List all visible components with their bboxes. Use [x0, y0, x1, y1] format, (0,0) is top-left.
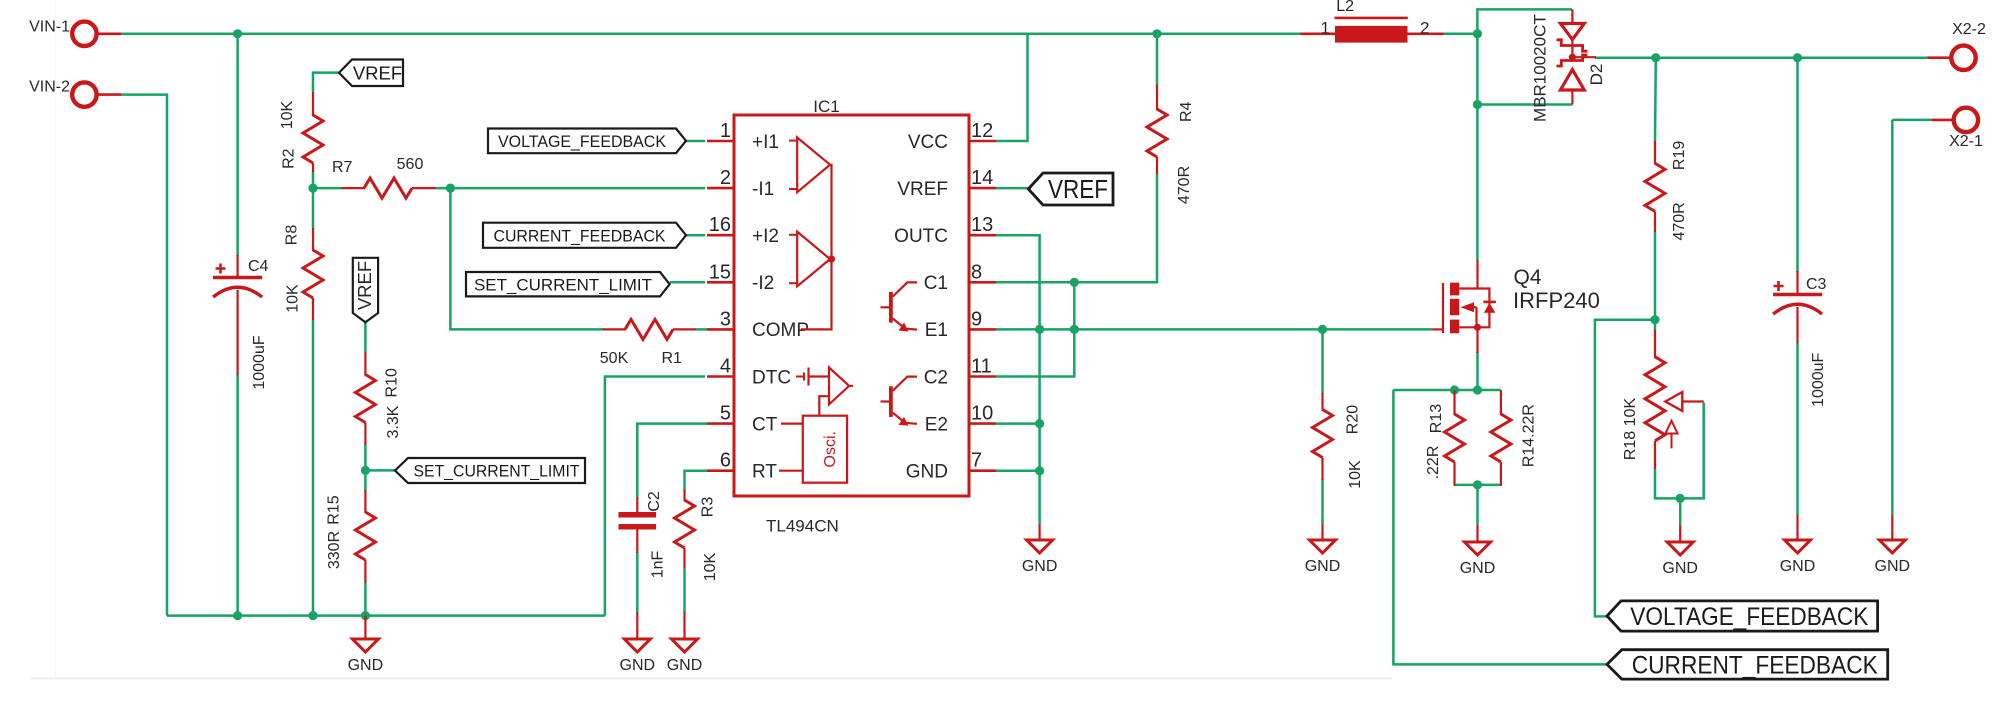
svg-text:IRFP240: IRFP240 [1513, 288, 1600, 313]
wire R4 top [1156, 34, 1159, 86]
net flag CURRENT_FEEDBACK bottom [1607, 650, 1888, 680]
svg-text:Q4: Q4 [1514, 266, 1542, 289]
wire source sense row [1393, 389, 1501, 392]
wire R4 bottom to C1 node [1074, 172, 1157, 282]
svg-text:L2: L2 [1336, 0, 1354, 15]
svg-text:+I2: +I2 [752, 226, 779, 247]
wire R13 R14 bottom row [1455, 484, 1501, 487]
wire R18 node to VOLTAGE_FEEDBACK [1595, 320, 1655, 617]
resistor R2 [279, 92, 323, 172]
svg-text:CT: CT [752, 414, 778, 435]
svg-text:DTC: DTC [752, 367, 791, 388]
net flag SET_CURRENT_LIMIT at pin15 [466, 272, 670, 296]
node A diode junction [1473, 100, 1482, 109]
svg-text:R14.22R: R14.22R [1520, 404, 1537, 467]
svg-text:R10: R10 [383, 368, 400, 397]
svg-text:1: 1 [720, 120, 731, 142]
comparator DTC (internal) [796, 367, 853, 415]
resistor R15 [325, 490, 375, 583]
svg-text:Osci.: Osci. [822, 431, 839, 467]
resistor R20 [1313, 393, 1364, 489]
ground GND at X2-1 [1875, 515, 1911, 575]
inductor L2 [1301, 0, 1444, 43]
wire R18 bottom loop [1655, 403, 1704, 499]
wire R15 bottom [364, 582, 367, 616]
wire R1 to IC pin 3 [695, 328, 708, 331]
svg-text:10K: 10K [702, 552, 719, 581]
svg-text:1000uF: 1000uF [1810, 352, 1827, 406]
node R13 top junction [1450, 385, 1459, 394]
wire DTC pin4 to ground rail [605, 377, 705, 616]
resistor R13 [1425, 390, 1465, 486]
wire R2-R8 node [312, 171, 315, 229]
node shunt GND junction [1473, 480, 1482, 489]
svg-text:1000uF: 1000uF [251, 335, 268, 389]
resistor R14 [1491, 390, 1537, 486]
svg-text:R19: R19 [1671, 141, 1688, 170]
svg-text:GND: GND [1022, 558, 1058, 575]
wire CURRENT_FEEDBACK loop [1393, 390, 1607, 664]
ground GND at shunt [1460, 525, 1496, 577]
svg-text:50K: 50K [600, 350, 629, 367]
svg-text:SET_CURRENT_LIMIT: SET_CURRENT_LIMIT [414, 462, 580, 481]
connector VIN-2 [29, 79, 121, 107]
svg-text:10: 10 [971, 403, 993, 425]
svg-text:6: 6 [720, 450, 731, 472]
wire junction to SET_CURRENT_LIMIT flag [365, 469, 395, 472]
svg-text:R1: R1 [661, 350, 682, 367]
ground GND at IC pin7 [1022, 524, 1058, 575]
svg-text:R20: R20 [1344, 405, 1361, 434]
svg-text:GND: GND [620, 657, 656, 674]
svg-text:10K: 10K [284, 284, 301, 313]
svg-text:10K: 10K [279, 100, 296, 129]
svg-text:C3: C3 [1806, 276, 1827, 293]
wire R19 bottom [1654, 231, 1657, 331]
svg-text:TL494CN: TL494CN [766, 517, 839, 536]
connector X2-2 [1927, 21, 1986, 70]
net flag VOLTAGE_FEEDBACK at pin1 [488, 129, 686, 154]
svg-text:R15: R15 [325, 495, 342, 524]
svg-text:470R: 470R [1671, 202, 1688, 240]
potentiometer R18 [1622, 330, 1704, 469]
svg-text:GND: GND [1662, 560, 1698, 577]
svg-text:R2: R2 [281, 148, 298, 169]
svg-text:R7: R7 [332, 159, 353, 176]
svg-text:12: 12 [971, 120, 993, 142]
node R10 R15 junction [361, 466, 370, 475]
resistor R8 [283, 225, 323, 320]
node C4 bottom rail junction [233, 611, 242, 620]
svg-text:R3: R3 [699, 497, 716, 518]
node C4 rail junction [233, 29, 242, 38]
wire D2 cathode out [1595, 56, 1927, 59]
svg-text:R18 10K: R18 10K [1622, 398, 1639, 461]
wire C2 bottom [636, 552, 639, 613]
svg-text:470R: 470R [1176, 166, 1193, 204]
svg-text:5: 5 [720, 403, 731, 425]
diode D2 MBR10020CT [1531, 9, 1606, 122]
wire C4 bottom [236, 374, 239, 616]
wire Q4 source down [1476, 352, 1479, 390]
wire GND pin 7 [996, 469, 1040, 472]
svg-text:GND: GND [1305, 558, 1341, 575]
capacitor C2 [619, 491, 667, 578]
wire E2 pin 10 [996, 422, 1040, 425]
svg-text:8: 8 [971, 261, 982, 283]
svg-text:SET_CURRENT_LIMIT: SET_CURRENT_LIMIT [474, 275, 652, 294]
op-amp IC1 TL494CN body and pins [707, 97, 996, 536]
wire R3 bottom [683, 568, 686, 613]
wire node A2 to IC pin 2 [450, 187, 705, 190]
svg-text:GND: GND [1875, 558, 1911, 575]
transistor Q-int1 C1/E1 (internal) [881, 282, 918, 331]
svg-text:E1: E1 [925, 320, 948, 341]
svg-text:3.3K: 3.3K [385, 405, 402, 438]
svg-text:VREF: VREF [1048, 176, 1108, 204]
svg-text:14: 14 [971, 167, 993, 189]
svg-text:OUTC: OUTC [894, 226, 948, 247]
svg-text:4: 4 [720, 356, 731, 378]
node R19 R18 junction [1650, 315, 1659, 324]
wire R20 top [1321, 329, 1324, 394]
connector X2-1 [1932, 108, 1983, 150]
frame line [30, 678, 1392, 680]
resistor R7 [332, 156, 436, 198]
svg-text:330R: 330R [326, 531, 343, 569]
wire C2 pin 11 up to E1 row [996, 282, 1074, 376]
resistor R3 [675, 490, 719, 581]
capacitor C3 [1773, 271, 1827, 407]
svg-text:COMP: COMP [752, 320, 809, 341]
wire node A to D2 bottom anode [1477, 103, 1572, 106]
wire X2-1 down to GND [1892, 119, 1932, 122]
svg-text:VOLTAGE_FEEDBACK: VOLTAGE_FEEDBACK [498, 132, 667, 151]
wire C3 bottom [1796, 342, 1799, 515]
oscillator Osci (internal) [779, 416, 847, 483]
svg-text:X2-1: X2-1 [1949, 133, 1983, 150]
svg-text:.22R: .22R [1425, 446, 1442, 480]
wire E1 pin 9 to Q4 gate [996, 328, 1432, 331]
ground GND at C2 [620, 612, 656, 674]
wire C4 top [236, 34, 239, 256]
node gate R20 junction [1318, 325, 1327, 334]
node R8 bottom rail junction [308, 611, 317, 620]
capacitor C4 [213, 255, 269, 390]
node R4 rail junction [1152, 29, 1161, 38]
wire R7 left [313, 187, 343, 190]
svg-text:X2-2: X2-2 [1952, 21, 1986, 38]
wire VIN-2 to bottom rail [120, 95, 167, 616]
svg-text:VIN-2: VIN-2 [29, 79, 70, 96]
svg-text:-I1: -I1 [752, 179, 774, 200]
svg-text:3: 3 [720, 308, 731, 330]
ground GND at C3 [1780, 515, 1816, 575]
wire IC pin 5 CT to C2 [637, 424, 707, 498]
svg-text:MBR10020CT: MBR10020CT [1531, 14, 1550, 122]
wire VOLTAGE_FEEDBACK flag to pin 1 [686, 140, 705, 143]
svg-text:GND: GND [348, 657, 384, 674]
op-amp error amp 1 (internal) [789, 138, 832, 330]
ground GND at R3 [667, 612, 703, 674]
svg-text:GND: GND [1460, 560, 1496, 577]
ground GND at R18 [1662, 525, 1698, 577]
svg-text:C2: C2 [924, 367, 948, 388]
node A rail junction [1473, 29, 1482, 38]
wire bottom ground rail [167, 614, 605, 617]
svg-text:CURRENT_FEEDBACK: CURRENT_FEEDBACK [494, 226, 667, 245]
svg-text:E2: E2 [925, 414, 948, 435]
svg-text:D2: D2 [1587, 64, 1606, 86]
svg-text:11: 11 [971, 356, 992, 378]
resistor R1 [600, 319, 696, 367]
svg-text:GND: GND [906, 462, 948, 483]
wire VCC pin 12 to rail [996, 34, 1028, 141]
wire R10 bottom node [364, 444, 367, 491]
net flag CURRENT_FEEDBACK at pin16 [483, 223, 686, 248]
resistor R10 [355, 352, 401, 445]
op-amp error amp 2 (internal) [789, 232, 835, 287]
svg-text:13: 13 [971, 214, 993, 236]
wire node A2 down to COMP [450, 188, 603, 329]
node D2 out R19 junction [1651, 53, 1660, 62]
svg-text:C2: C2 [646, 491, 663, 512]
svg-text:9: 9 [971, 308, 982, 330]
svg-text:10K: 10K [1347, 460, 1364, 489]
wire X2-1 vertical [1891, 120, 1894, 515]
svg-text:VCC: VCC [908, 132, 948, 153]
wire SET_CURRENT_LIMIT flag to pin 15 [670, 281, 705, 284]
svg-text:7: 7 [971, 450, 982, 472]
transistor Q4 IRFP240 [1432, 260, 1600, 353]
svg-text:C4: C4 [248, 258, 269, 275]
node R15 bottom rail junction [361, 611, 370, 620]
svg-text:15: 15 [709, 261, 731, 283]
wire shunt GND stub [1476, 485, 1479, 525]
svg-text:2: 2 [1420, 19, 1429, 38]
wire C3 top [1796, 58, 1799, 272]
svg-text:560: 560 [397, 156, 424, 173]
node C1 R4 junction [1070, 278, 1079, 287]
svg-text:RT: RT [752, 462, 777, 483]
svg-text:VOLTAGE_FEEDBACK: VOLTAGE_FEEDBACK [1630, 603, 1868, 631]
svg-text:+I1: +I1 [752, 132, 779, 153]
node R2 R8 R7 junction [308, 184, 317, 193]
svg-text:1: 1 [1321, 19, 1330, 38]
svg-text:IC1: IC1 [813, 97, 839, 116]
resistor R19 [1645, 141, 1688, 241]
node OUTC-E1 junction [1035, 325, 1044, 334]
wire R7 right to node A2 [434, 187, 450, 190]
svg-text:R4: R4 [1178, 101, 1195, 122]
wire R18 GND stub [1679, 498, 1682, 525]
svg-text:VIN-1: VIN-1 [29, 19, 70, 36]
svg-text:R8: R8 [283, 225, 300, 246]
wire R2 top to VREF flag [313, 73, 339, 93]
ground GND at R20 [1305, 524, 1341, 575]
net flag VOLTAGE_FEEDBACK bottom [1607, 601, 1878, 631]
connector VIN-1 [29, 19, 121, 47]
wire IC pin 6 RT to R3 [685, 471, 708, 491]
net flag VREF at pin14 [1028, 173, 1113, 205]
node source junction [1473, 385, 1482, 394]
node R7 output junction [446, 184, 455, 193]
wire R8 bottom [312, 319, 315, 616]
wire CURRENT_FEEDBACK flag to pin 16 [686, 234, 705, 237]
resistor R4 [1147, 85, 1195, 204]
svg-text:1nF: 1nF [649, 550, 666, 578]
svg-text:CURRENT_FEEDBACK: CURRENT_FEEDBACK [1632, 651, 1878, 679]
svg-text:R13: R13 [1428, 404, 1445, 433]
node OUTC-E2 junction [1035, 419, 1044, 428]
svg-text:2: 2 [720, 167, 731, 189]
net flag VREF at R10 [353, 258, 378, 323]
node D2 out C3 junction [1793, 53, 1802, 62]
svg-text:VREF: VREF [354, 261, 375, 310]
ground GND at rail [348, 616, 384, 674]
net flag VREF at R2 [339, 60, 403, 87]
wire VREF pin 14 to flag [996, 187, 1028, 190]
wire VREF flag to R10 [364, 322, 367, 353]
svg-text:VREF: VREF [353, 62, 402, 83]
net flag SET_CURRENT_LIMIT at R10 [395, 458, 585, 483]
svg-text:VREF: VREF [897, 179, 948, 200]
svg-text:C1: C1 [924, 273, 948, 294]
wire OUTC pin 13 down to GND [996, 235, 1040, 524]
node R18 GND junction [1676, 494, 1685, 503]
wire VIN-1 top rail [120, 33, 1301, 36]
wire C1 pin 8 [996, 281, 1074, 284]
node E1 C2 junction [1070, 325, 1079, 334]
svg-text:-I2: -I2 [752, 273, 774, 294]
transistor Q-int2 C2/E2 (internal) [881, 377, 918, 426]
wire R20 bottom [1321, 479, 1324, 524]
svg-text:GND: GND [1780, 558, 1816, 575]
wire node A vertical [1477, 9, 1572, 260]
node OUTC-GND7 junction [1035, 466, 1044, 475]
wire L2 right to node A [1443, 33, 1478, 36]
wire R19 top [1654, 58, 1657, 142]
svg-text:GND: GND [667, 657, 703, 674]
svg-text:16: 16 [709, 214, 731, 236]
